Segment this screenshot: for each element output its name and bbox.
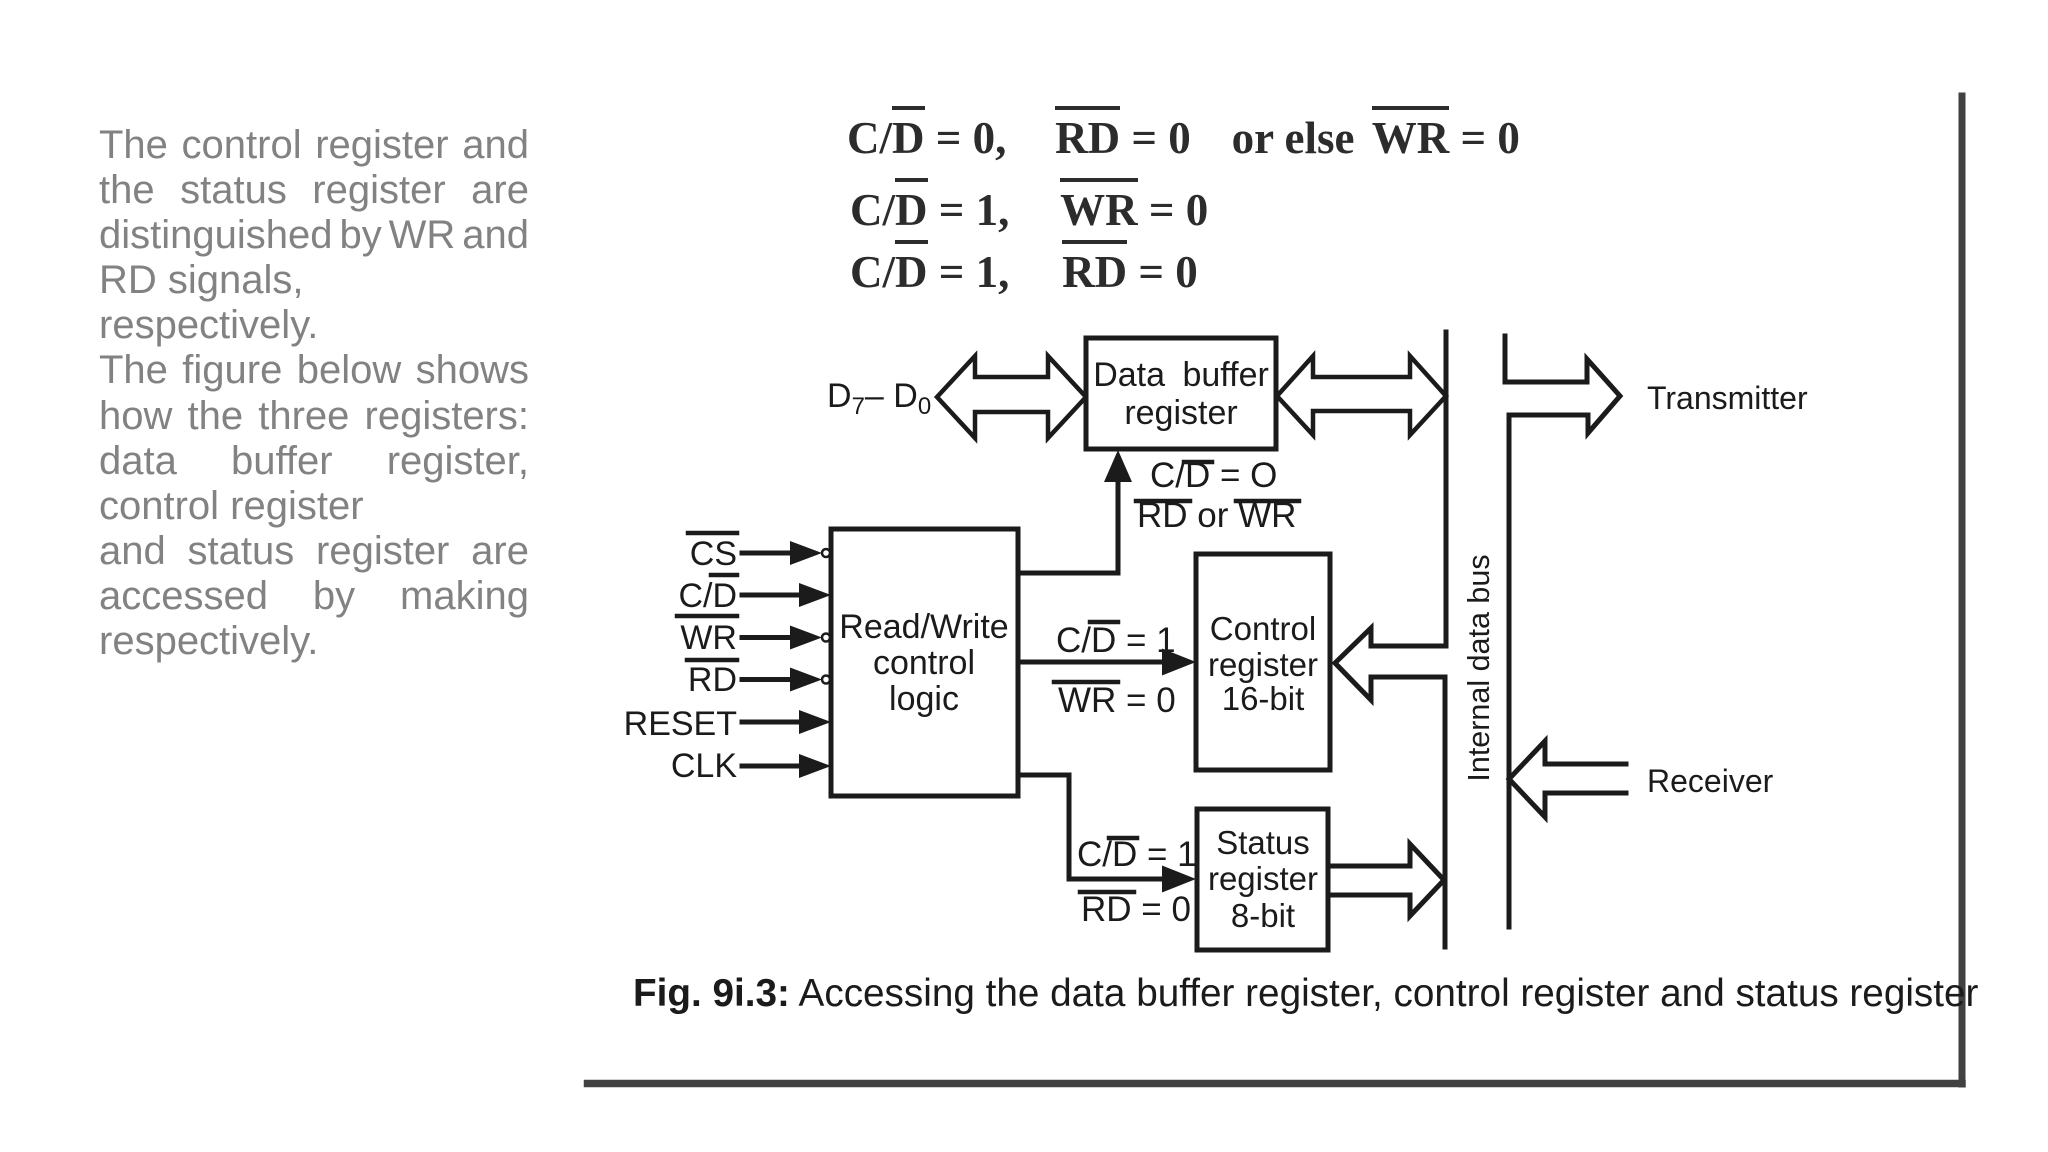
wire: internal data bus left rail and open arrow into control register bbox=[1335, 332, 1446, 947]
svg-text:8-bit: 8-bit bbox=[1231, 897, 1295, 934]
wire: read/write logic to status register bbox=[1018, 775, 1168, 879]
figure border right edge bbox=[1959, 96, 1966, 1084]
svg-text:Receiver: Receiver bbox=[1647, 763, 1774, 799]
svg-text:WR = 0: WR = 0 bbox=[1058, 681, 1176, 720]
svg-text:RESET: RESET bbox=[624, 705, 737, 743]
wire: status register open arrow to internal data bus bbox=[1330, 844, 1444, 916]
wire: internal data bus right rail with open arrow to transmitter bbox=[1505, 336, 1620, 927]
svg-text:Read/Write: Read/Write bbox=[839, 608, 1008, 646]
svg-text:CS: CS bbox=[690, 535, 737, 573]
svg-text:register: register bbox=[1208, 646, 1318, 683]
wire: read/write logic to data buffer register (up arrow) bbox=[1018, 478, 1118, 573]
svg-text:CLK: CLK bbox=[671, 747, 737, 785]
wire WR input bbox=[742, 635, 800, 640]
svg-text:Control: Control bbox=[1210, 610, 1316, 647]
equation line 1 bbox=[847, 112, 1520, 164]
svg-text:Data buffer: Data buffer bbox=[1093, 356, 1269, 394]
figure border bottom edge bbox=[588, 1080, 1963, 1088]
svg-text:register: register bbox=[1208, 860, 1318, 897]
equation line 2 bbox=[850, 184, 1208, 236]
svg-text:register: register bbox=[1124, 394, 1237, 432]
svg-text:C/D = 1: C/D = 1 bbox=[1056, 621, 1176, 660]
svg-text:Internal data bus: Internal data bus bbox=[1462, 554, 1496, 781]
control register box bbox=[1196, 554, 1330, 770]
svg-text:D7– D0: D7– D0 bbox=[827, 377, 931, 420]
svg-text:C/D: C/D bbox=[678, 577, 737, 615]
svg-text:Fig. 9i.3: Accessing the data: Fig. 9i.3: Accessing the data buffer reg… bbox=[633, 972, 1979, 1015]
status register box bbox=[1197, 809, 1328, 950]
svg-text:16-bit: 16-bit bbox=[1222, 680, 1305, 717]
svg-text:RD: RD bbox=[688, 661, 737, 699]
wire RESET input bbox=[742, 720, 805, 725]
svg-text:RD = 0: RD = 0 bbox=[1081, 890, 1191, 929]
left explanatory paragraph bbox=[99, 123, 529, 664]
wire RD input bbox=[742, 677, 800, 682]
wire CS input bbox=[742, 551, 800, 556]
data buffer register box bbox=[1086, 338, 1276, 449]
svg-text:control: control bbox=[873, 644, 975, 682]
read/write control logic box U1 bbox=[831, 529, 1018, 796]
wire CLK input bbox=[742, 764, 805, 769]
wire: receiver open arrow into internal data bus bbox=[1509, 741, 1626, 817]
wire: bidirectional block arrow D7-D0 to data buffer register bbox=[937, 356, 1086, 438]
wire: bidirectional block arrow data buffer register to internal data bus bbox=[1277, 356, 1446, 435]
svg-text:logic: logic bbox=[889, 680, 959, 718]
equation line 3 bbox=[850, 246, 1198, 298]
svg-text:Status: Status bbox=[1216, 824, 1310, 861]
wire: read/write logic to control register bbox=[1020, 660, 1168, 665]
svg-text:WR: WR bbox=[680, 619, 737, 657]
wire C/D input bbox=[742, 593, 805, 598]
svg-text:C/D = 1: C/D = 1 bbox=[1077, 835, 1197, 874]
svg-text:Transmitter: Transmitter bbox=[1647, 380, 1808, 416]
